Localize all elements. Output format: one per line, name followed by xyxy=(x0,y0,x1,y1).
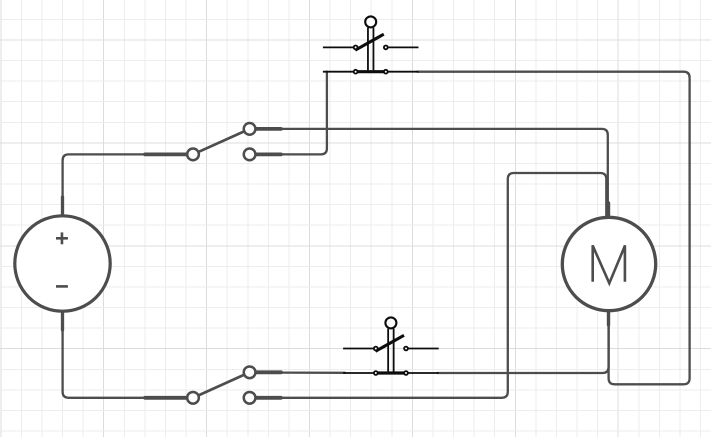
battery plus terminal mark xyxy=(56,232,68,244)
wire S2 upper throw to pushbutton PB2 lower-left terminal xyxy=(281,371,345,373)
wire PB1 lower-right terminal along right rail to motor bottom terminal xyxy=(418,72,690,385)
motor M xyxy=(562,203,655,325)
wire battery negative to switch S2 pole xyxy=(63,328,147,398)
battery minus terminal mark xyxy=(56,285,68,288)
pushbutton PB1 DPDT (top) xyxy=(323,16,419,73)
wire PB2 lower-right terminal to motor bottom terminal xyxy=(438,322,609,373)
switch S2 SPDT (bottom), lever on upper throw xyxy=(145,366,281,403)
power supply / battery source xyxy=(15,197,110,330)
motor letter M xyxy=(593,245,625,283)
wire S1 lower throw up to pushbutton PB1 lower-left terminal xyxy=(281,72,327,155)
wire S1 upper throw to motor top terminal xyxy=(281,129,608,219)
switch S1 SPDT (top), lever on upper throw xyxy=(145,123,281,160)
wire S2 lower throw up and over to motor top terminal xyxy=(281,173,606,398)
wire battery positive to switch S1 pole xyxy=(63,154,147,216)
pushbutton PB2 DPDT (bottom) xyxy=(343,317,439,375)
